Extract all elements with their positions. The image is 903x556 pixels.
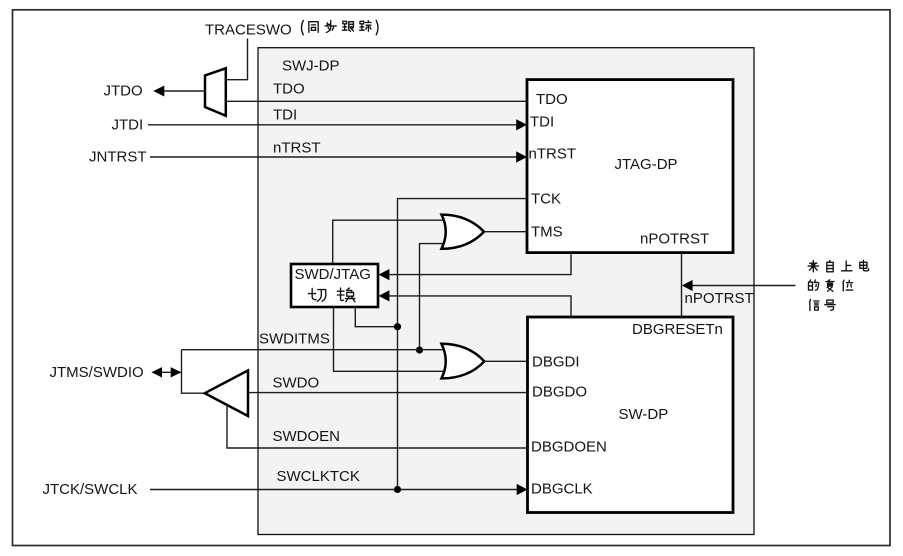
wire OR1 bottom input from SWDITMS tap (420, 244, 445, 350)
svg-text:nTRST: nTRST (273, 140, 321, 157)
wire TDO from mux to JTAG-DP (226, 100, 527, 102)
wire nPOTRST vertical between JTAG-DP and SW-DP (681, 253, 683, 318)
mux trapezoid (TDO/TRACESWO selector) (205, 68, 226, 116)
wire switch output B to OR2 bottom input (334, 307, 445, 371)
svg-text:TCK: TCK (531, 191, 561, 208)
block JTAG-DP (527, 80, 733, 253)
svg-text:SWDO: SWDO (273, 375, 320, 392)
svg-text:JNTRST: JNTRST (89, 149, 147, 166)
svg-text:DBGDOEN: DBGDOEN (531, 439, 607, 456)
arrowhead JTDO (points left) (153, 86, 164, 97)
pad outline (JTMS/SWDIO cell) (182, 350, 205, 394)
svg-text:SW-DP: SW-DP (619, 406, 669, 423)
wire OR1 top input from SWD/JTAG box top (333, 220, 444, 264)
label TRACESWO (同步跟踪) (205, 20, 378, 38)
wire OR1 output to TMS pin (484, 231, 527, 233)
node junction on TCK vertical (394, 323, 401, 330)
svg-text:DBGRESETn: DBGRESETn (632, 321, 723, 338)
svg-text:nPOTRST: nPOTRST (640, 231, 709, 248)
arrowhead nPOTRST (points left) (682, 280, 693, 291)
svg-text:TDO: TDO (273, 81, 305, 98)
SWD/JTAG switch box (291, 264, 378, 307)
label 切换 (308, 288, 355, 302)
arrowhead DBGCLK (points right) (517, 484, 528, 495)
wire OR2 output to DBGDI pin (484, 360, 527, 362)
arrowhead TDI (points right) (516, 119, 527, 130)
wire SW-DP top to SWD/JTAG switch (lower arrow) (382, 296, 571, 317)
svg-text:SWDITMS: SWDITMS (259, 331, 330, 348)
svg-text:TRACESWO: TRACESWO (205, 22, 292, 39)
wire SWDITMS from pad to OR2 (182, 349, 445, 351)
svg-text:JTDO: JTDO (104, 83, 143, 100)
svg-text:TMS: TMS (531, 224, 563, 241)
node junction on SWCLKTCK line (394, 486, 401, 493)
tri-state output buffer (points left) (205, 370, 248, 416)
wire JTDI to TDI pin (148, 124, 519, 126)
wire switch output A to TCK vertical (355, 307, 397, 327)
svg-text:JTAG-DP: JTAG-DP (615, 156, 678, 173)
wire JTAG-DP bottom to SWD/JTAG switch (upper arrow) (382, 253, 571, 275)
svg-text:JTDI: JTDI (112, 116, 144, 133)
svg-text:TDO: TDO (536, 91, 568, 108)
svg-text:SWDOEN: SWDOEN (273, 428, 341, 445)
svg-text:nPOTRST: nPOTRST (685, 290, 754, 307)
svg-text:SWJ-DP: SWJ-DP (282, 58, 340, 75)
svg-text:DBGDI: DBGDI (532, 354, 580, 371)
node junction on SWDITMS line (416, 346, 423, 353)
wire JTCK/SWCLK to DBGCLK (150, 489, 520, 491)
or-gate OR2 (DBGDI) (442, 344, 485, 379)
wire power-on reset input (690, 285, 796, 287)
svg-text:nTRST: nTRST (529, 146, 577, 163)
wire JTDO output from mux (163, 90, 205, 92)
svg-text:JTCK/SWCLK: JTCK/SWCLK (43, 481, 138, 498)
wire JNTRST to nTRST pin (150, 156, 519, 158)
SWJ-DP shaded block (258, 48, 754, 535)
svg-text:TDI: TDI (530, 114, 554, 131)
svg-text:JTMS/SWDIO: JTMS/SWDIO (50, 364, 144, 381)
or-gate OR1 (TMS) (442, 215, 485, 249)
wire TCK from JTAG-DP down the long vertical to SWCLKTCK (398, 199, 528, 490)
wire SWDOEN enable from buffer (227, 405, 528, 448)
arrowhead into switch upper (points left) (379, 269, 390, 280)
svg-text:SWD/JTAG: SWD/JTAG (295, 266, 371, 283)
label 来自上电的复位信号 (808, 260, 869, 310)
arrowhead into switch lower (points left) (379, 290, 390, 301)
block SW-DP (528, 317, 734, 513)
bidirectional arrow JTMS/SWDIO (151, 367, 181, 377)
arrowhead nTRST (points right) (516, 151, 527, 162)
wire TRACESWO vertical into mux (226, 39, 248, 80)
svg-text:DBGDO: DBGDO (532, 384, 587, 401)
svg-text:DBGCLK: DBGCLK (531, 481, 593, 498)
svg-text:TDI: TDI (273, 107, 297, 124)
wire SWDO from buffer to DBGDO (248, 392, 528, 394)
svg-text:SWCLKTCK: SWCLKTCK (277, 468, 360, 485)
